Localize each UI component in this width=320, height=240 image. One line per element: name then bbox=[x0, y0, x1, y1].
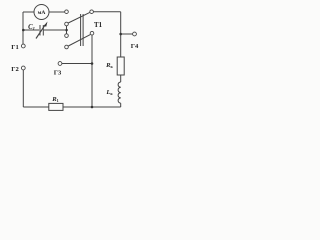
transformer T1 upper winding bbox=[68, 12, 90, 23]
terminal G3 bbox=[58, 62, 62, 66]
contact L4 bbox=[65, 45, 69, 49]
arrowhead C1 bbox=[44, 22, 48, 27]
wire right rail lower bbox=[120, 103, 122, 107]
wire secondary down bbox=[91, 35, 93, 107]
wire G2 down bbox=[22, 70, 24, 107]
junction dot C1 feed bbox=[22, 29, 25, 32]
transformer T1 core bbox=[80, 14, 82, 46]
terminal G2 bbox=[21, 66, 25, 70]
inductor Lk coil bbox=[118, 82, 121, 103]
contact L1 bbox=[65, 10, 69, 14]
wire Rk to Lk bbox=[120, 75, 122, 82]
wire G3 branch bbox=[62, 63, 92, 65]
resistor Rk box bbox=[117, 57, 124, 75]
wire G4 branch bbox=[121, 33, 133, 35]
svg-text:Г4: Г4 bbox=[131, 43, 139, 50]
wire bottom rail left bbox=[23, 106, 49, 108]
svg-text:R1: R1 bbox=[51, 96, 59, 103]
svg-text:Г1: Г1 bbox=[11, 44, 19, 51]
junction dot switch bbox=[65, 29, 68, 32]
junction dot G4 bbox=[119, 33, 122, 36]
svg-text:Rк: Rк bbox=[105, 62, 113, 69]
contact L2 bbox=[65, 22, 69, 26]
svg-text:Т1: Т1 bbox=[94, 22, 103, 29]
svg-text:Г3: Г3 bbox=[54, 70, 62, 77]
transformer T1 lower winding bbox=[68, 35, 90, 46]
milliammeter mA bbox=[34, 5, 49, 20]
terminal G4 bbox=[133, 32, 137, 36]
contact R1 bbox=[90, 10, 94, 14]
svg-text:С1: С1 bbox=[28, 24, 35, 31]
capacitor C1 plates bbox=[39, 25, 41, 36]
capacitor C1 variable arrow bbox=[36, 25, 45, 39]
wire bottom rail right bbox=[63, 106, 121, 108]
wire capacitor feed bbox=[23, 29, 39, 31]
wire meter to contact bbox=[49, 11, 65, 13]
wire left rail upper (node between C1 and G1) bbox=[22, 12, 24, 44]
wire top rail right bbox=[93, 11, 120, 13]
wire top-left horizontal bbox=[23, 11, 34, 13]
svg-text:Г2: Г2 bbox=[11, 66, 19, 73]
junction dot bottom bbox=[91, 106, 94, 109]
wire capacitor to junction bbox=[44, 29, 65, 31]
contact R2 bbox=[90, 31, 94, 35]
svg-text:Lк: Lк bbox=[105, 89, 113, 96]
resistor R1 box bbox=[49, 103, 63, 110]
wire right rail upper bbox=[120, 12, 122, 57]
junction dot G3 bbox=[91, 62, 94, 65]
svg-text:мА: мА bbox=[38, 10, 46, 16]
switch link L2-L3 bbox=[66, 26, 68, 34]
contact L3 bbox=[65, 34, 69, 38]
terminal G1 bbox=[21, 44, 25, 48]
